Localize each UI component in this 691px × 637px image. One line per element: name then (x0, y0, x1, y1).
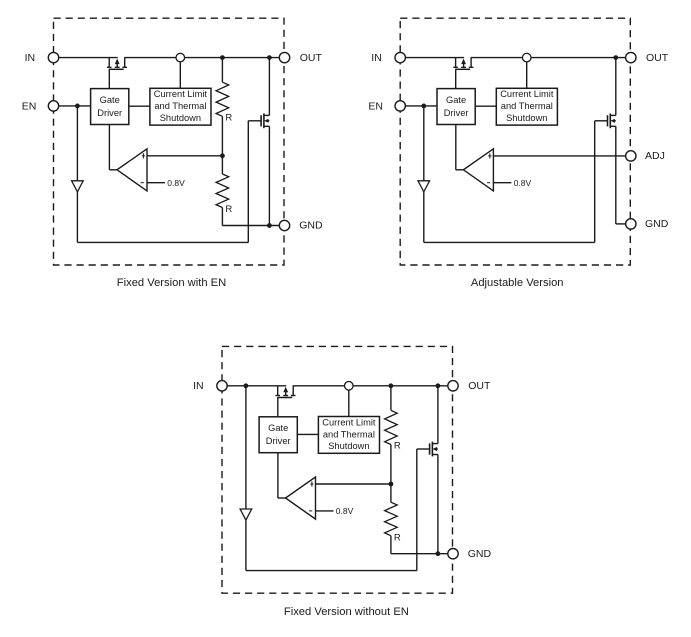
svg-text:OUT: OUT (646, 52, 669, 64)
junction dot NMOS source on ground rail (436, 551, 441, 556)
transistor Q4 channel bar (609, 113, 611, 128)
junction dot EN node (421, 104, 426, 109)
wire sense node down to Current Limit block (526, 58, 528, 89)
pin IN (terminal circle) (48, 52, 58, 62)
svg-text:Adjustable Version: Adjustable Version (471, 277, 564, 289)
op-amp U1 non-inverting input + mark (142, 153, 144, 158)
wire Gate Driver to Current Limit block (475, 105, 496, 107)
wire enable buffer output down (76, 192, 78, 243)
wire ground rail to GND pin (391, 553, 448, 555)
block Current Limit and Thermal Shutdown (318, 417, 379, 454)
wire EN node down to enable buffer (76, 106, 78, 181)
wire top rail PMOS drain to OUT (293, 385, 448, 387)
svg-text:OUT: OUT (300, 52, 323, 64)
junction dot on IN rail (enable tied to IN) (244, 383, 249, 388)
buffer B1 (enable inverter, points down) (72, 181, 84, 192)
svg-text:R: R (394, 532, 401, 543)
pin GND (terminal circle) (626, 219, 636, 229)
transistor Q4 drain wire to output rail (615, 58, 617, 116)
resistor R lower feedback zigzag (385, 502, 398, 536)
wire top rail IN to PMOS source/body (59, 57, 118, 59)
transistor Q1 gate plate (109, 68, 124, 70)
wire PMOS gate to Gate Driver (277, 398, 279, 417)
junction dot top rail to feedback divider (220, 55, 225, 60)
wire IN rail down to enable buffer (245, 386, 247, 509)
wire NMOS source to GND pin (616, 223, 626, 225)
transistor Q1 body contact tick (283, 395, 288, 397)
junction dot top rail to feedback divider (389, 383, 394, 388)
junction dot NMOS drain on top rail (613, 55, 618, 60)
svg-text:Driver: Driver (444, 108, 469, 118)
transistor Q2 source wire to ground rail (437, 455, 439, 554)
transistor Q1 body arrow (points up) (285, 391, 287, 396)
transistor Q2 channel bar (263, 113, 265, 128)
junction dot NMOS source on ground rail (267, 223, 272, 228)
svg-text:ADJ: ADJ (645, 150, 665, 162)
svg-text:and Thermal: and Thermal (323, 429, 375, 439)
junction dot EN node (75, 104, 80, 109)
op-amp U1 output wire to gate driver (109, 169, 117, 171)
dashed boundary box: Adjustable Version (400, 18, 630, 265)
wire EN to Gate Driver (405, 105, 437, 107)
pin EN (terminal circle) (48, 101, 58, 111)
wire shutdown path along bottom (77, 241, 248, 243)
wire PMOS gate to Gate Driver (455, 69, 457, 88)
transistor Q4 gate plate (607, 115, 609, 126)
wire shutdown path up to NMOS gate (594, 121, 596, 243)
transistor Q2 (discharge NMOS) gate lead (248, 120, 261, 122)
block Gate Driver (437, 89, 475, 125)
svg-text:0.8V: 0.8V (336, 506, 354, 516)
svg-text:Fixed Version without EN: Fixed Version without EN (284, 606, 409, 618)
node sense terminal on top rail (open circle) (522, 53, 531, 62)
wire ground rail to GND pin (222, 225, 279, 227)
wire sense node down to Current Limit block (348, 386, 350, 417)
wire EN to Gate Driver (59, 105, 91, 107)
svg-text:Gate: Gate (268, 423, 288, 433)
transistor Q2 gate plate (260, 115, 262, 126)
wire enable buffer output down (245, 520, 247, 571)
pin GND (terminal circle) (279, 220, 289, 230)
pin OUT (terminal circle) (448, 381, 458, 391)
transistor Q1 gate plate (277, 397, 292, 399)
wire feedback node down to lower feedback resistor (221, 156, 223, 174)
transistor Q2 drain wire to output rail (437, 386, 439, 444)
svg-text:GND: GND (645, 218, 669, 230)
svg-text:0.8V: 0.8V (514, 178, 532, 188)
transistor Q1 drain contact tick (291, 395, 296, 397)
wire top rail down to upper feedback resistor (221, 58, 223, 82)
op-amp U1 (error amplifier) triangle (117, 149, 147, 191)
transistor Q1 drain leg (292, 386, 294, 396)
transistor Q2 channel bar (431, 442, 433, 457)
svg-text:EN: EN (368, 100, 383, 112)
wire lower resistor to ground rail (221, 208, 223, 226)
op-amp U2 non-inverting input + mark (489, 153, 491, 158)
block Current Limit and Thermal Shutdown (150, 88, 211, 125)
svg-text:R: R (394, 441, 401, 452)
svg-text:IN: IN (193, 380, 204, 392)
svg-text:GND: GND (468, 548, 492, 560)
svg-text:and Thermal: and Thermal (154, 101, 206, 111)
svg-text:Shutdown: Shutdown (506, 113, 547, 123)
wire op-amp - input to reference (316, 510, 334, 512)
wire op-amp - input to reference (493, 182, 511, 184)
wire upper resistor to feedback node (221, 116, 223, 156)
transistor Q3 (pass PMOS) source leg (455, 58, 457, 68)
op-amp U2 output wire to gate driver (456, 169, 464, 171)
svg-text:GND: GND (299, 220, 323, 232)
block Gate Driver (91, 89, 129, 125)
pin GND (terminal circle) (448, 549, 458, 559)
wire shutdown path along bottom (246, 570, 417, 572)
resistor R upper feedback zigzag (385, 410, 398, 444)
transistor Q2 drain stub (432, 443, 438, 445)
junction dot feedback node (220, 153, 225, 158)
junction dot feedback node (389, 482, 394, 487)
svg-text:Gate: Gate (100, 95, 120, 105)
pin OUT (terminal circle) (626, 52, 636, 62)
resistor R lower feedback zigzag (216, 174, 229, 208)
transistor Q4 source wire to ground rail (615, 126, 617, 224)
transistor Q3 body contact tick (461, 66, 466, 68)
transistor Q4 source stub (610, 125, 616, 127)
transistor Q2 body stub with arrow (265, 120, 269, 122)
wire Gate Driver to Current Limit block (297, 433, 318, 435)
transistor Q2 source stub (264, 125, 270, 127)
junction dot NMOS drain on top rail (436, 383, 441, 388)
dashed boundary box: Fixed Version without EN (222, 346, 453, 593)
pin IN (terminal circle) (217, 381, 227, 391)
transistor Q1 (pass PMOS) source leg (108, 58, 110, 68)
op-amp U1 (error amplifier) triangle (286, 477, 316, 519)
wire feedback node to op-amp + input (147, 155, 222, 157)
pin EN (terminal circle) (395, 101, 405, 111)
svg-text:Current Limit: Current Limit (154, 89, 208, 99)
svg-text:R: R (225, 204, 232, 215)
wire enable buffer output down (423, 192, 425, 243)
svg-text:Current Limit: Current Limit (322, 417, 376, 427)
wire top rail down to upper feedback resistor (390, 386, 392, 410)
transistor Q2 drain wire to output rail (268, 58, 270, 116)
svg-text:Current Limit: Current Limit (500, 89, 554, 99)
transistor Q3 drain leg (470, 58, 472, 68)
pin OUT (terminal circle) (279, 52, 289, 62)
wire shutdown path along bottom (424, 241, 595, 243)
transistor Q2 (discharge NMOS) gate lead (417, 448, 430, 450)
svg-text:IN: IN (371, 52, 382, 64)
junction dot NMOS drain on top rail (267, 55, 272, 60)
svg-text:Driver: Driver (97, 108, 122, 118)
op-amp U1 inverting input - mark (141, 182, 144, 184)
buffer B1 (enable inverter, points down) (240, 509, 252, 520)
transistor Q1 body arrow (points up) (116, 63, 118, 68)
block Current Limit and Thermal Shutdown (496, 88, 557, 125)
dashed boundary box: Fixed Version with EN (54, 18, 285, 265)
op-amp U2 (error amplifier) triangle (463, 149, 493, 191)
transistor Q2 source stub (432, 454, 438, 456)
wire op-amp - input to reference (147, 182, 165, 184)
svg-text:Shutdown: Shutdown (160, 113, 201, 123)
transistor Q2 body stub with arrow (434, 448, 438, 450)
wire top rail PMOS drain to OUT (124, 57, 279, 59)
wire feedback node to op-amp + input (316, 483, 391, 485)
svg-text:Gate: Gate (446, 95, 466, 105)
wire top rail IN to PMOS source/body (405, 57, 464, 59)
svg-text:EN: EN (22, 100, 37, 112)
svg-text:R: R (225, 112, 232, 123)
pin ADJ (terminal circle) (626, 151, 636, 161)
transistor Q2 drain stub (264, 114, 270, 116)
op-amp U1 output wire to gate driver (278, 497, 286, 499)
transistor Q4 (discharge NMOS) gate lead (595, 120, 608, 122)
wire EN node down to enable buffer (423, 106, 425, 181)
wire feedback node down to lower feedback resistor (390, 484, 392, 502)
wire shutdown path up to NMOS gate (416, 449, 418, 571)
wire upper resistor to feedback node (390, 445, 392, 485)
svg-text:OUT: OUT (468, 380, 491, 392)
transistor Q1 drain contact tick (122, 66, 127, 68)
wire top rail IN to PMOS source/body (227, 385, 286, 387)
transistor Q3 source contact tick (453, 66, 458, 68)
svg-text:and Thermal: and Thermal (501, 101, 553, 111)
wire lower resistor to ground rail (390, 536, 392, 554)
pin IN (terminal circle) (395, 52, 405, 62)
op-amp U1 inverting input - mark (309, 510, 312, 512)
transistor Q3 gate plate (455, 68, 470, 70)
transistor Q1 source contact tick (107, 66, 112, 68)
node sense terminal on top rail (open circle) (176, 53, 185, 62)
op-amp U2 inverting input - mark (487, 182, 490, 184)
node sense terminal on top rail (open circle) (345, 382, 354, 391)
transistor Q1 body contact tick (115, 66, 120, 68)
transistor Q1 source contact tick (275, 395, 280, 397)
svg-text:0.8V: 0.8V (167, 178, 185, 188)
wire PMOS gate to Gate Driver (108, 69, 110, 88)
transistor Q3 drain contact tick (469, 66, 474, 68)
transistor Q4 drain stub (610, 114, 616, 116)
wire op-amp + input to ADJ pin (493, 155, 625, 157)
wire top rail PMOS drain to OUT (471, 57, 626, 59)
resistor R upper feedback zigzag (216, 82, 229, 116)
transistor Q1 drain leg (124, 58, 126, 68)
svg-text:Fixed Version with EN: Fixed Version with EN (117, 277, 226, 289)
wire shutdown path up to NMOS gate (247, 121, 249, 243)
svg-text:Driver: Driver (266, 436, 291, 446)
block Gate Driver (259, 417, 297, 453)
svg-text:IN: IN (25, 52, 36, 64)
wire Gate Driver to Current Limit block (129, 105, 150, 107)
transistor Q3 body arrow (points up) (463, 63, 465, 68)
transistor Q4 body stub with arrow (612, 120, 616, 122)
svg-text:Shutdown: Shutdown (328, 441, 369, 451)
transistor Q2 gate plate (429, 443, 431, 454)
wire sense node down to Current Limit block (179, 58, 181, 89)
buffer B2 (enable inverter, points down) (418, 181, 430, 192)
op-amp U1 non-inverting input + mark (311, 481, 313, 486)
transistor Q1 (pass PMOS) source leg (277, 386, 279, 396)
transistor Q2 source wire to ground rail (268, 126, 270, 225)
